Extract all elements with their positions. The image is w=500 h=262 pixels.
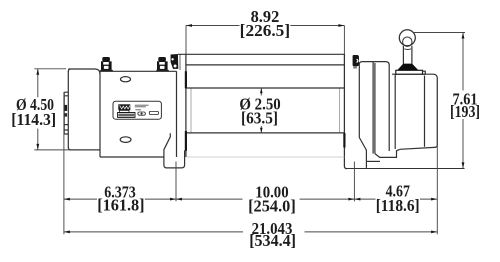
svg-text:[254.0]: [254.0] bbox=[248, 197, 296, 216]
oval hole lower bbox=[120, 137, 131, 143]
dim 7.61 line bbox=[462, 33, 464, 169]
tie plate / control bracket bbox=[100, 71, 177, 157]
dim 7.61 extension lines bbox=[414, 32, 465, 34]
clutch lever knob bbox=[399, 30, 415, 47]
dim 8.92 arrows bbox=[186, 24, 344, 27]
dim row2 line (21.043) bbox=[64, 231, 437, 233]
clutch lever base flange bbox=[396, 70, 426, 74]
drum right flange bbox=[340, 54, 347, 168]
dim 8.92 extension lines bbox=[186, 26, 344, 55]
svg-text:[193]: [193] bbox=[450, 102, 480, 121]
svg-text:[114.3]: [114.3] bbox=[11, 110, 56, 129]
dim row1 arrows bbox=[64, 198, 70, 201]
dim 4.50 line bbox=[37, 69, 39, 150]
svg-text:[161.8]: [161.8] bbox=[97, 195, 144, 214]
svg-text:[118.6]: [118.6] bbox=[376, 196, 420, 215]
motor end cap bbox=[64, 92, 68, 134]
WARN spec label bbox=[113, 101, 161, 119]
bolt B1 on bracket bbox=[100, 57, 113, 72]
left mounting foot bbox=[164, 133, 185, 168]
dim row2 arrows bbox=[64, 231, 437, 234]
dim 2.50 centerline and arrows bbox=[260, 88, 262, 132]
right mounting foot bbox=[365, 161, 367, 168]
dim 4.50 extension lines bbox=[34, 69, 98, 150]
svg-text:[226.5]: [226.5] bbox=[240, 21, 290, 40]
drum horizontal lines bbox=[178, 54, 345, 157]
motor terminal stud (black) bbox=[64, 105, 67, 117]
clutch gear housing bbox=[389, 65, 437, 152]
drum left flange bbox=[186, 54, 191, 157]
svg-text:[534.4]: [534.4] bbox=[249, 231, 296, 250]
oval hole upper bbox=[121, 77, 131, 82]
bottom extension lines bbox=[63, 92, 65, 234]
clutch lever shaft bbox=[403, 46, 412, 64]
clutch lever pivot (black) bbox=[397, 64, 418, 71]
motor M1 cylinder bbox=[68, 69, 100, 157]
dim 7.61 arrows bbox=[462, 33, 465, 169]
svg-text:[63.5]: [63.5] bbox=[241, 108, 278, 127]
cable anchor right (black) bbox=[353, 55, 359, 69]
dim row1 line (6.373 / 10.00 / 4.67) bbox=[64, 198, 437, 200]
bolt B2 on bracket bbox=[156, 57, 169, 72]
bottom ground line right bbox=[347, 168, 465, 170]
dim 4.50 arrows bbox=[36, 69, 39, 150]
right drum support plate bbox=[359, 62, 399, 162]
cable anchor bracket left (black) bbox=[171, 54, 180, 70]
dim 8.92 line bbox=[186, 25, 344, 27]
